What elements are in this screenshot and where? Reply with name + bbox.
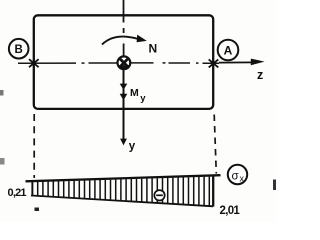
svg-text:y: y	[140, 93, 146, 104]
svg-text:y: y	[129, 141, 136, 153]
svg-text:0,21: 0,21	[8, 187, 27, 199]
svg-text:A: A	[224, 44, 233, 58]
svg-text:2,01: 2,01	[220, 205, 241, 217]
svg-text:N: N	[149, 42, 158, 56]
svg-text:z: z	[257, 68, 263, 82]
svg-text:x: x	[240, 174, 245, 184]
svg-text:M: M	[130, 87, 139, 99]
svg-text:B: B	[15, 44, 23, 56]
svg-text:σ: σ	[232, 171, 239, 183]
